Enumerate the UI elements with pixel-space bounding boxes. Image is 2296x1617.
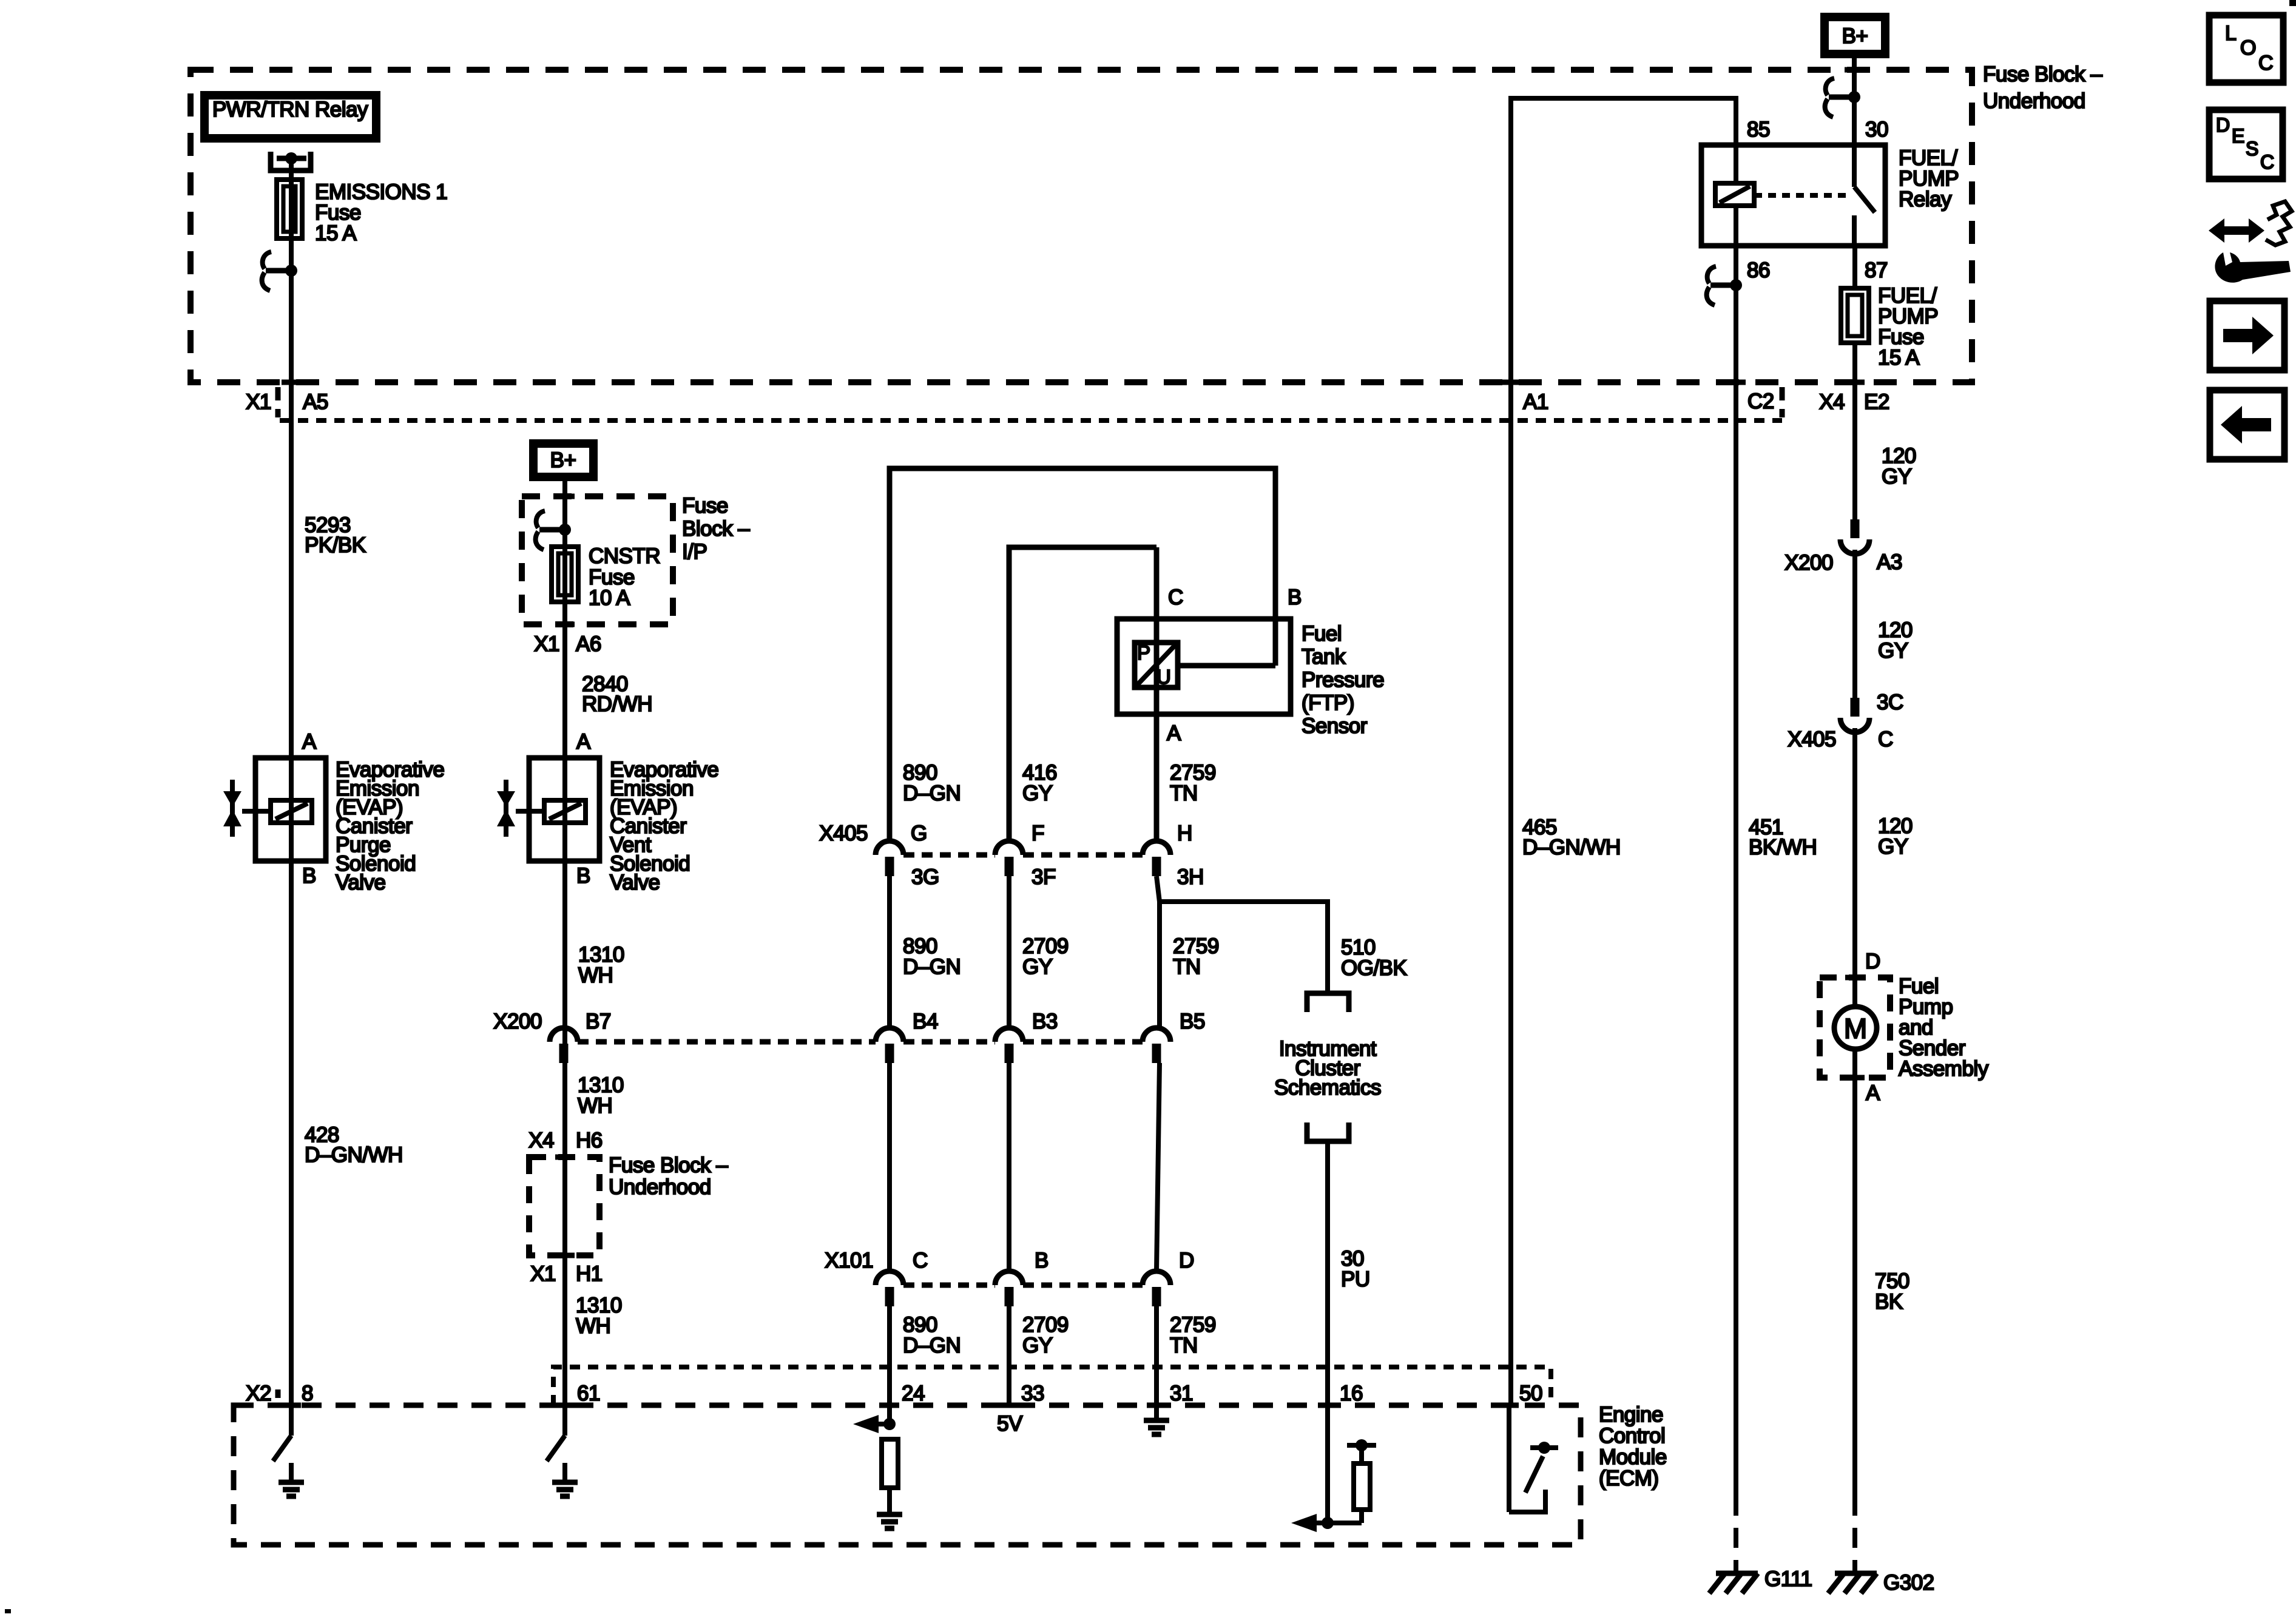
svg-text:3G: 3G [911, 865, 939, 889]
svg-text:30: 30 [1865, 118, 1888, 141]
svg-text:D–GN/WH: D–GN/WH [1522, 836, 1621, 859]
connector B3 [995, 1028, 1023, 1042]
svg-text:B+: B+ [1842, 24, 1868, 48]
wire inner loop 416 GY to FTP C [1009, 547, 1156, 842]
wire 465 D-GN/WH: pin85 loop to ECM pin 50 [1511, 98, 1736, 1405]
svg-text:X1: X1 [246, 390, 271, 414]
svg-text:C: C [2260, 151, 2274, 173]
svg-text:X1: X1 [534, 632, 559, 656]
svg-text:B: B [1035, 1249, 1048, 1272]
svg-text:H6: H6 [576, 1129, 603, 1152]
relay contact blade [1852, 145, 1857, 187]
svg-text:31: 31 [1170, 1382, 1193, 1405]
svg-text:D: D [2216, 114, 2230, 136]
B+ terminal (underhood) [1825, 17, 1885, 54]
pin 16 internals: arrow, pull-up resistor [1309, 1521, 1362, 1525]
svg-text:GY: GY [1878, 639, 1908, 663]
FTP P/U transducer symbol [1135, 643, 1178, 687]
tick crossing fuse block edge [282, 380, 301, 385]
X101 row dashed link [903, 1283, 995, 1288]
FUEL/PUMP Relay box [1701, 145, 1885, 246]
svg-text:X4: X4 [1819, 390, 1845, 414]
svg-text:GY: GY [1022, 781, 1053, 805]
svg-text:Fuse Block –: Fuse Block – [609, 1153, 728, 1177]
svg-text:A3: A3 [1877, 550, 1902, 574]
wire 2759 segment 3 [1154, 1306, 1159, 1419]
Fuel Pump and Sender Assembly dashed box [1820, 977, 1890, 1078]
pin 24 internals: arrow, resistor, ground [871, 1422, 890, 1426]
solenoid coil [544, 800, 586, 823]
wire FTP C/A vertical [1154, 547, 1160, 842]
svg-text:B5: B5 [1180, 1010, 1205, 1033]
svg-text:X1: X1 [530, 1262, 556, 1286]
svg-text:PU: PU [1341, 1268, 1370, 1291]
svg-text:OG/BK: OG/BK [1341, 956, 1407, 980]
ground G302 [1835, 1571, 1877, 1576]
svg-text:CNSTR: CNSTR [589, 544, 660, 568]
svg-text:L: L [2225, 22, 2236, 45]
svg-text:15 A: 15 A [315, 221, 357, 245]
svg-text:Underhood: Underhood [609, 1175, 711, 1199]
svg-text:D: D [1179, 1249, 1194, 1272]
svg-text:5V: 5V [997, 1412, 1023, 1436]
solenoid valve body [255, 758, 326, 861]
svg-text:(FTP): (FTP) [1302, 691, 1354, 715]
svg-text:16: 16 [1340, 1382, 1363, 1405]
svg-text:A: A [1167, 721, 1181, 745]
svg-text:M: M [1844, 1013, 1867, 1044]
dashed drop to G302 [1852, 1496, 1857, 1573]
svg-text:A: A [302, 730, 317, 754]
svg-text:X200: X200 [493, 1010, 542, 1033]
svg-text:61: 61 [577, 1382, 600, 1405]
svg-text:Control: Control [1599, 1424, 1665, 1448]
svg-text:Assembly: Assembly [1899, 1057, 1989, 1081]
wire 890 segment 3 [887, 1306, 892, 1424]
svg-text:TN: TN [1170, 1334, 1198, 1357]
icon back arrow [2210, 390, 2284, 459]
pin 31 ground [1144, 1418, 1169, 1423]
svg-text:86: 86 [1747, 258, 1770, 282]
connector G [876, 841, 903, 855]
Fuse Block - I/P dashed box [522, 496, 673, 624]
svg-text:C: C [2258, 52, 2273, 75]
svg-text:Tank: Tank [1302, 645, 1346, 669]
svg-text:TN: TN [1170, 781, 1198, 805]
ECM switch at pin 8 [273, 1436, 291, 1461]
relay actuator dashed link [1754, 193, 1849, 198]
svg-text:Fuse: Fuse [682, 494, 728, 518]
svg-text:33: 33 [1021, 1382, 1044, 1405]
svg-text:3H: 3H [1177, 865, 1204, 889]
in-line connector X200 A3 [1851, 519, 1860, 538]
svg-text:85: 85 [1747, 118, 1770, 141]
svg-text:A: A [1866, 1081, 1880, 1105]
wire down to fuel pump [1852, 343, 1857, 519]
terminal clip at pin 86 [1710, 283, 1736, 288]
connector B4 [876, 1028, 903, 1042]
wire 2759 segment 2 [1156, 1063, 1160, 1271]
svg-text:50: 50 [1519, 1382, 1542, 1405]
svg-text:S: S [2246, 138, 2258, 160]
svg-text:15 A: 15 A [1878, 346, 1920, 370]
svg-text:F: F [1032, 822, 1044, 845]
wire col1: EMISSIONS fuse to EVAP purge to ECM pin 8 [289, 158, 294, 1436]
wire FTP B horizontal into P/U [1178, 663, 1275, 669]
svg-text:D–GN/WH: D–GN/WH [305, 1143, 403, 1167]
dashed drop to G111 [1734, 1496, 1738, 1573]
svg-text:Fuel: Fuel [1302, 622, 1342, 646]
wire 2709 segment 2 [1007, 1063, 1011, 1271]
svg-text:I/P: I/P [682, 540, 707, 564]
svg-text:GY: GY [1022, 955, 1053, 979]
wire 2709 segment [1007, 876, 1011, 1028]
svg-text:D–GN: D–GN [903, 955, 961, 979]
B+ terminal (I/P) [533, 444, 593, 477]
svg-text:Pressure: Pressure [1302, 668, 1384, 692]
X1 separator dash [275, 387, 281, 417]
wire 890 segment 2 [887, 1063, 892, 1271]
svg-text:A: A [576, 730, 591, 754]
svg-text:3C: 3C [1877, 690, 1903, 714]
svg-text:Schematics: Schematics [1274, 1076, 1381, 1099]
svg-text:X4: X4 [528, 1129, 554, 1152]
PWR/TRN Relay label box [204, 95, 376, 138]
connector B7 [550, 1028, 578, 1042]
svg-text:O: O [2240, 36, 2256, 59]
connector C [876, 1271, 903, 1285]
wire B+ to relay 30 [1852, 54, 1857, 145]
FTP sensor box [1117, 619, 1291, 714]
svg-text:WH: WH [578, 964, 613, 987]
fuse holder bracket top [271, 152, 311, 170]
svg-text:E: E [2232, 125, 2244, 147]
svg-text:B4: B4 [913, 1010, 938, 1033]
wire 2709 segment 3 [1007, 1306, 1011, 1405]
svg-text:Valve: Valve [336, 871, 385, 894]
svg-text:X101: X101 [825, 1249, 873, 1272]
solenoid coil [271, 800, 312, 823]
svg-text:87: 87 [1865, 258, 1888, 282]
wire 890 segment [887, 876, 892, 1028]
earth ground pin 61 [562, 1463, 567, 1482]
svg-text:Engine: Engine [1599, 1403, 1663, 1426]
svg-text:C: C [1168, 586, 1183, 609]
branch wire to instrument cluster [1160, 902, 1328, 993]
connector B [995, 1271, 1023, 1285]
off-page bracket bottom [1307, 1122, 1349, 1141]
connector F [995, 841, 1023, 855]
svg-text:B+: B+ [550, 448, 576, 472]
svg-text:H: H [1177, 822, 1192, 845]
off-page bracket top [1307, 993, 1349, 1012]
icon DESC [2209, 110, 2283, 179]
terminal clip below fuse [266, 268, 291, 274]
wire 451 BK/WH: relay 86 to G111 [1734, 246, 1738, 1496]
icon LOC [2209, 15, 2283, 83]
wire 87 to fuse [1852, 246, 1857, 288]
svg-text:BK/WH: BK/WH [1749, 836, 1817, 859]
svg-text:(ECM): (ECM) [1599, 1467, 1659, 1490]
svg-text:BK: BK [1875, 1290, 1903, 1314]
svg-text:Fuse Block –: Fuse Block – [1983, 62, 2102, 86]
valve pintle symbol [230, 780, 235, 837]
svg-text:D: D [1865, 950, 1880, 973]
svg-text:H1: H1 [576, 1262, 603, 1286]
svg-text:X405: X405 [819, 822, 868, 845]
svg-text:G111: G111 [1764, 1567, 1812, 1591]
ECM switch at pin 61 [547, 1436, 565, 1461]
ECM connector dotted rail [553, 1367, 1551, 1405]
svg-text:C2: C2 [1747, 390, 1774, 413]
Fuse Block - Underhood dashed box [191, 70, 1972, 382]
svg-text:Underhood: Underhood [1983, 89, 2085, 113]
svg-text:B: B [576, 864, 590, 888]
svg-text:C: C [1878, 727, 1893, 751]
svg-text:TN: TN [1173, 955, 1201, 979]
svg-text:X405: X405 [1788, 727, 1836, 751]
terminal clip above CNSTR fuse [539, 527, 565, 533]
svg-text:WH: WH [578, 1094, 612, 1118]
wire col2 [562, 477, 567, 1436]
svg-text:3F: 3F [1032, 865, 1056, 889]
svg-text:B7: B7 [586, 1010, 611, 1033]
svg-text:D–GN: D–GN [903, 781, 961, 805]
svg-text:Sensor: Sensor [1302, 714, 1368, 738]
svg-text:G302: G302 [1883, 1571, 1934, 1595]
svg-text:PK/BK: PK/BK [305, 533, 366, 557]
X405 row dashed link [903, 852, 995, 858]
X200 row dashed link [578, 1039, 876, 1045]
connector D [1143, 1271, 1170, 1285]
coil stub wire [516, 809, 544, 814]
svg-text:U: U [1156, 666, 1170, 688]
fuel pump motor [1852, 977, 1857, 1007]
svg-text:B: B [1288, 586, 1302, 609]
wire 30 PU down to ECM pin 16 [1325, 1141, 1330, 1523]
CNSTR Fuse 10 A [552, 547, 578, 602]
svg-text:10 A: 10 A [589, 586, 630, 610]
Engine Control Module dashed box [234, 1405, 1581, 1545]
svg-text:E2: E2 [1864, 390, 1889, 414]
earth ground pin 8 [289, 1463, 294, 1482]
icon next arrow [2210, 301, 2284, 370]
svg-text:8: 8 [302, 1382, 313, 1405]
wire outer loop 890 D-GN to FTP B [890, 468, 1275, 842]
svg-text:GY: GY [1878, 835, 1908, 859]
page corner mark [2289, 0, 2296, 6]
wire 2759 segment with branch kink [1156, 876, 1160, 1028]
connector B5 [1143, 1028, 1170, 1042]
ground G111 [1716, 1571, 1758, 1576]
svg-text:PWR/TRN Relay: PWR/TRN Relay [212, 98, 368, 121]
svg-text:X2: X2 [246, 1382, 271, 1405]
svg-text:Valve: Valve [610, 871, 660, 894]
terminal clip below B+ [1829, 95, 1854, 100]
FUEL/PUMP Fuse 15 A [1841, 288, 1869, 343]
svg-text:B3: B3 [1032, 1010, 1058, 1033]
icon wrench/part [2209, 201, 2292, 283]
svg-text:X200: X200 [1784, 551, 1833, 575]
pin 50 internals: driver switch [1507, 1405, 1511, 1512]
Fuse Block Underhood small dashed box [529, 1157, 599, 1255]
svg-text:24: 24 [902, 1382, 925, 1405]
svg-text:GY: GY [1022, 1334, 1053, 1357]
svg-text:Module: Module [1599, 1445, 1667, 1469]
fuse EMISSIONS 1 15A [277, 180, 302, 238]
svg-text:D–GN: D–GN [903, 1334, 961, 1357]
coil stub wire [242, 809, 271, 814]
svg-text:A1: A1 [1523, 390, 1548, 414]
valve pintle symbol [504, 780, 508, 837]
solenoid valve body [529, 758, 599, 861]
connector H [1143, 841, 1170, 855]
svg-text:G: G [911, 822, 927, 845]
svg-text:RD/WH: RD/WH [582, 692, 652, 716]
svg-text:GY: GY [1882, 465, 1912, 488]
svg-text:B: B [302, 864, 316, 888]
relay coil [1715, 183, 1754, 206]
svg-text:WH: WH [576, 1314, 610, 1338]
svg-text:Relay: Relay [1899, 187, 1952, 211]
svg-text:Block –: Block – [682, 517, 750, 541]
fuse block connector dotted rail [280, 418, 1782, 423]
svg-text:C: C [913, 1249, 928, 1272]
svg-text:A5: A5 [303, 390, 328, 414]
svg-text:P: P [1137, 641, 1150, 664]
svg-text:A6: A6 [576, 632, 601, 656]
